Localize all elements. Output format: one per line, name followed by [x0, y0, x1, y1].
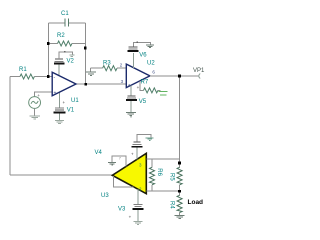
op-amp U1 — [52, 72, 76, 96]
svg-text:V4: V4 — [95, 150, 103, 156]
svg-text:R2: R2 — [57, 33, 65, 39]
svg-text:U2: U2 — [147, 61, 155, 67]
svg-text:C1: C1 — [61, 11, 69, 17]
ground R4 — [175, 216, 185, 219]
svg-text:V3: V3 — [118, 207, 126, 213]
wire bottom feedback — [10, 174, 112, 176]
svg-text:U3: U3 — [101, 193, 109, 199]
wire right rail — [179, 76, 181, 163]
wire U3 top right — [146, 158, 179, 160]
svg-text:R7: R7 — [141, 80, 149, 86]
label net green R7 — [159, 92, 168, 96]
svg-text:+: + — [54, 91, 57, 97]
svg-text:V6: V6 — [139, 53, 147, 59]
svg-text:V5: V5 — [139, 99, 147, 105]
ground V6 — [146, 45, 154, 48]
svg-text:U1: U1 — [71, 98, 79, 104]
svg-text:V2: V2 — [67, 59, 75, 65]
junction node R2-C1 right — [84, 47, 87, 50]
svg-text:VP1: VP1 — [193, 68, 205, 74]
wire U1 Vplus pin — [58, 65, 60, 76]
V4 source — [131, 135, 151, 160]
wire feedback right rail — [85, 23, 87, 84]
svg-text:R6: R6 — [156, 168, 162, 176]
svg-text:R1: R1 — [19, 67, 27, 73]
capacitor C1 — [48, 18, 85, 26]
junction node U1 output feedback — [84, 83, 87, 86]
U3 offset bracket ground — [108, 156, 126, 166]
ground V1 — [55, 121, 64, 124]
resistor R3 — [91, 66, 127, 71]
resistor R7 — [140, 81, 161, 93]
V1 source — [54, 108, 66, 121]
source V sine — [29, 97, 41, 109]
wire source ground stub — [34, 108, 36, 115]
resistor R5 — [177, 163, 182, 191]
svg-text:+: + — [131, 151, 134, 156]
svg-text:R3: R3 — [103, 61, 111, 67]
svg-text:R4: R4 — [168, 201, 174, 209]
svg-text:V1: V1 — [67, 108, 75, 114]
ground V5 — [126, 112, 136, 117]
resistor R6 — [150, 159, 155, 191]
terminal VP1 — [199, 74, 200, 79]
wire U2 Vminus pin — [130, 85, 132, 96]
ground source — [29, 116, 40, 119]
wire U1 output — [76, 83, 126, 85]
resistor R2 — [48, 41, 85, 46]
wire U2 Vplus pin — [133, 53, 135, 68]
V6 source — [128, 42, 151, 51]
resistor R1 — [10, 74, 52, 79]
V5 source — [126, 96, 137, 112]
svg-text:Load: Load — [188, 199, 204, 206]
wire U2 output — [150, 75, 198, 77]
U3 lower bracket — [114, 176, 134, 187]
ground V4 — [146, 138, 154, 141]
wire V3 pin — [137, 189, 139, 204]
junction node R2-C1 left — [47, 42, 50, 45]
junction node R4 top — [178, 190, 181, 193]
svg-text:+: + — [37, 93, 40, 98]
ground V3 — [134, 222, 143, 225]
wire feedback left rail — [47, 23, 49, 76]
junction node U1 inverting input — [47, 75, 50, 78]
op-amp U3 — [112, 153, 146, 193]
wire U1 Vminus pin — [58, 92, 60, 107]
resistor R4 — [177, 191, 182, 215]
V3 source — [133, 204, 144, 221]
svg-text:+: + — [63, 100, 66, 105]
wire left rail — [9, 77, 11, 176]
junction node R5 top — [178, 162, 181, 165]
ground R3 — [86, 68, 96, 75]
junction node VP1 — [178, 75, 181, 78]
svg-text:+: + — [129, 215, 132, 220]
V2 source — [54, 52, 75, 63]
V2 bracket pin mark — [64, 51, 66, 53]
op-amp U2 — [126, 64, 150, 88]
wire source plus — [35, 92, 53, 97]
svg-text:+: + — [137, 85, 140, 90]
wire U3 bottom right — [146, 190, 179, 192]
svg-text:R5: R5 — [169, 173, 175, 181]
